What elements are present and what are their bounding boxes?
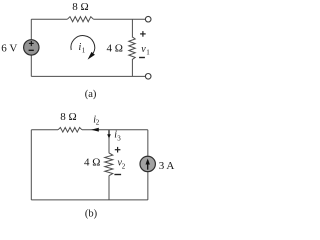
svg-text:4 Ω: 4 Ω [84,157,100,169]
svg-text:1: 1 [146,48,150,56]
svg-text:2: 2 [122,162,126,170]
svg-text:6 V: 6 V [1,42,17,54]
svg-text:(a): (a) [85,89,97,100]
svg-text:3 A: 3 A [159,160,175,172]
svg-text:1: 1 [82,46,86,54]
svg-text:8 Ω: 8 Ω [60,111,76,123]
svg-text:3: 3 [117,135,121,143]
svg-text:2: 2 [96,119,100,127]
svg-text:(b): (b) [85,209,98,220]
svg-text:4 Ω: 4 Ω [106,42,122,54]
svg-text:8 Ω: 8 Ω [72,1,88,13]
